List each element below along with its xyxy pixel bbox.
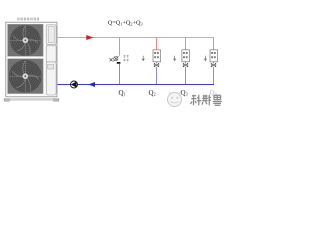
- circulation pump on return: [71, 81, 78, 88]
- riser 1 blue: [119, 64, 121, 85]
- watermark text 科斯曼 (gray CJK glyph blocks): [191, 95, 222, 106]
- heat pump outdoor unit: outer cabinet: [6, 22, 57, 97]
- side panel column: top cover: [46, 25, 56, 45]
- bypass annotation text (2x2 tiny chars): [123, 55, 129, 61]
- fan bottom: disc and blades: [9, 60, 42, 93]
- side panel: inner tall rectangle: [48, 27, 54, 43]
- fan coil unit box 2: [153, 50, 161, 62]
- bypass black fitting bar: [117, 62, 121, 64]
- fan section top: grille square: [8, 24, 44, 56]
- riser 1 red (bypass branch): [119, 38, 121, 56]
- unit base rail: [4, 99, 59, 100]
- base foot right: [54, 99, 59, 102]
- riser 3 blue: [185, 68, 187, 85]
- riser 4 red: [213, 38, 215, 50]
- fan coil unit box 3: [182, 50, 190, 62]
- flow arrow down (branch 4): [204, 56, 207, 61]
- riser 2 red: [156, 38, 158, 50]
- fan section bottom: grille square: [8, 59, 44, 94]
- riser 3 red: [185, 38, 187, 50]
- riser 2 blue: [156, 68, 158, 85]
- svg-text:Q=Q1+Q2+Q3: Q=Q1+Q2+Q3: [108, 20, 143, 27]
- flow arrow down (branch 2): [142, 56, 145, 61]
- valve 4: [211, 63, 216, 66]
- valve 2: [154, 63, 159, 66]
- flow arrow down (branch 3): [173, 56, 176, 61]
- base foot left: [4, 99, 9, 102]
- fan top: disc and blades: [10, 25, 40, 55]
- bypass valve X mark: [110, 58, 113, 61]
- supply flow arrow: [86, 35, 93, 40]
- supply pipe (red header): [58, 37, 214, 39]
- fan coil unit box 4: [210, 50, 218, 62]
- return pipe (blue): [58, 84, 215, 86]
- return flow arrow: [88, 82, 95, 87]
- side panel: middle cell: [46, 46, 56, 62]
- bypass pump icon: [113, 56, 118, 62]
- riser 4 blue: [213, 68, 215, 85]
- valve 3: [183, 63, 188, 66]
- side panel: bottom cover: [46, 62, 56, 95]
- side panel: small vent rect: [48, 64, 54, 69]
- watermark logo circle: [168, 92, 182, 107]
- label: 空气源热泵主机 (unit title, tiny CJK glyph blobs): [17, 17, 39, 20]
